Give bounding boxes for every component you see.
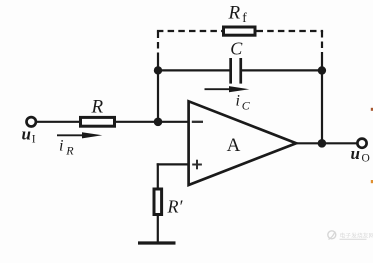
- svg-text:O: O: [362, 153, 370, 165]
- svg-text:u: u: [351, 144, 360, 163]
- svg-text:i: i: [59, 138, 63, 155]
- svg-text:R′: R′: [167, 197, 184, 217]
- svg-text:u: u: [22, 125, 31, 144]
- svg-text:R: R: [228, 3, 241, 24]
- svg-text:f: f: [242, 10, 247, 25]
- svg-text:I: I: [32, 134, 36, 146]
- svg-text:C: C: [242, 99, 251, 113]
- svg-text:R: R: [91, 97, 104, 118]
- svg-text:C: C: [230, 39, 243, 59]
- svg-text:R: R: [65, 144, 74, 158]
- svg-text:A: A: [227, 135, 241, 156]
- svg-text:电子发烧友网: 电子发烧友网: [340, 232, 373, 240]
- svg-text:i: i: [236, 93, 240, 110]
